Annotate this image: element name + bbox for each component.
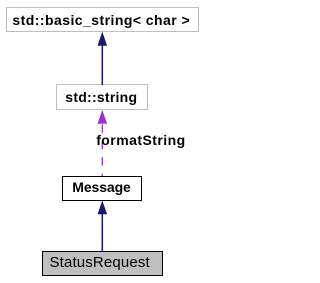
inheritance arrow StatusRequest to Message	[98, 200, 108, 251]
node box StatusRequest	[42, 251, 163, 276]
usage arrow Message to std::string	[98, 110, 108, 176]
node label StatusRequest	[50, 255, 150, 270]
node label std::basic_string< char >	[12, 13, 190, 27]
node label std::string	[65, 90, 137, 104]
edge label formatString	[96, 133, 185, 147]
inheritance arrow std::string to std::basic_string	[98, 32, 108, 85]
node box std::basic_string< char >	[6, 7, 199, 32]
node label Message	[72, 180, 130, 194]
node box std::string	[56, 84, 148, 110]
node box Message	[62, 176, 142, 201]
